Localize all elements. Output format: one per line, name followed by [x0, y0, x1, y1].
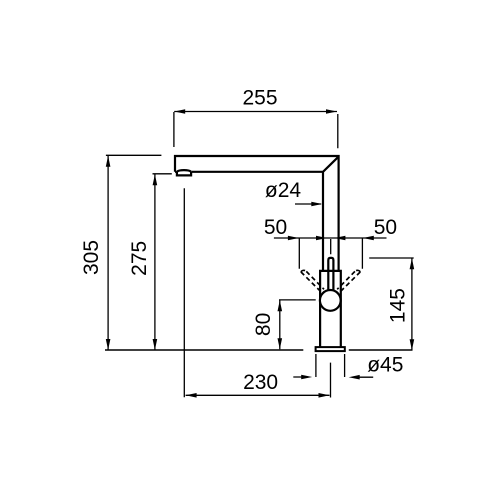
- outlet nozzle: [177, 170, 191, 175]
- dim 305 lines: [106, 155, 161, 350]
- dim 50-50 lines: [274, 238, 387, 269]
- arrow 50 outer-left: [288, 236, 299, 241]
- svg-text:255: 255: [242, 86, 277, 109]
- arrow dia45 left: [301, 375, 312, 380]
- cartridge housing: [320, 271, 341, 347]
- arrow 230 right: [319, 393, 330, 398]
- arrow 80 top: [278, 300, 283, 311]
- svg-text:50: 50: [374, 216, 397, 239]
- dia45 lines: [293, 354, 373, 377]
- ball joint: [320, 290, 341, 311]
- arrow 255 left: [174, 109, 185, 114]
- arrow 275 bottom: [153, 339, 158, 350]
- arrow 50 inner-right: [334, 236, 345, 241]
- svg-text:ø24: ø24: [265, 179, 302, 202]
- svg-text:230: 230: [243, 371, 278, 394]
- arrow 275 top: [153, 174, 158, 185]
- dim 275 lines: [153, 174, 172, 350]
- arrow 145 top: [410, 258, 415, 269]
- arrow 145 bottom: [410, 339, 415, 350]
- arrow dia45 right: [349, 375, 360, 380]
- arrow 255 right: [326, 109, 337, 114]
- base flange: [316, 347, 345, 351]
- dim 230 lines: [184, 188, 330, 397]
- svg-text:50: 50: [264, 216, 287, 239]
- lever ghost dashed right: [337, 270, 360, 293]
- arrow 230 left: [186, 393, 197, 398]
- dim 145 lines: [369, 258, 414, 350]
- arrow 50 inner-left: [316, 236, 327, 241]
- lever ghost dashed left: [301, 270, 324, 293]
- arrow 305 top: [106, 156, 111, 167]
- arrow 50 outer-right: [363, 236, 374, 241]
- arrow 305 bottom: [106, 339, 111, 350]
- dim 255 lines: [174, 112, 338, 149]
- svg-text:275: 275: [128, 241, 151, 276]
- lever rod: [328, 258, 333, 292]
- svg-text:145: 145: [387, 288, 410, 323]
- dim 80 lines: [279, 300, 316, 349]
- arrow dia24: [311, 202, 322, 207]
- dia24 leader line: [295, 203, 321, 205]
- spout outline: [175, 156, 339, 271]
- arrow 80 bottom: [278, 338, 283, 349]
- svg-text:305: 305: [80, 240, 103, 275]
- svg-text:ø45: ø45: [367, 354, 403, 377]
- svg-text:80: 80: [252, 313, 275, 336]
- countertop line: [105, 349, 413, 351]
